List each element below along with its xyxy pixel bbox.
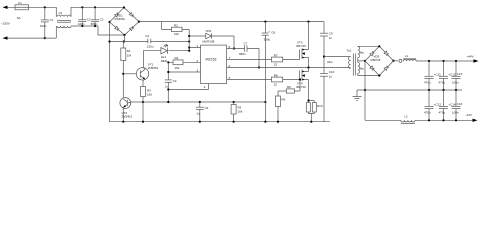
svg-text:1n: 1n bbox=[165, 85, 169, 89]
svg-text:1u: 1u bbox=[329, 75, 333, 79]
svg-text:100n: 100n bbox=[452, 110, 459, 114]
svg-text:R1: R1 bbox=[127, 49, 131, 53]
svg-text:R8: R8 bbox=[274, 73, 278, 77]
svg-text:~230V: ~230V bbox=[1, 22, 10, 26]
svg-text:+44V: +44V bbox=[467, 55, 474, 59]
svg-text:C7: C7 bbox=[244, 42, 248, 46]
svg-text:C4: C4 bbox=[145, 34, 149, 38]
svg-text:22: 22 bbox=[274, 63, 278, 67]
svg-text:R7: R7 bbox=[274, 53, 278, 57]
svg-text:R6: R6 bbox=[282, 98, 286, 102]
svg-text:MUR108: MUR108 bbox=[203, 39, 215, 43]
svg-text:C3: C3 bbox=[100, 18, 104, 22]
svg-text:L1: L1 bbox=[405, 54, 409, 58]
svg-text:R4: R4 bbox=[175, 56, 179, 60]
svg-text:R10: R10 bbox=[317, 104, 323, 108]
svg-text:IR2153: IR2153 bbox=[206, 57, 217, 61]
svg-text:C16: C16 bbox=[457, 102, 463, 106]
svg-text:1M: 1M bbox=[127, 54, 132, 58]
svg-text:10k: 10k bbox=[174, 32, 179, 36]
svg-text:+C11: +C11 bbox=[434, 73, 441, 77]
svg-text:10k: 10k bbox=[238, 110, 243, 114]
svg-text:+: + bbox=[268, 30, 270, 34]
svg-text:C8: C8 bbox=[271, 30, 275, 34]
svg-text:100n: 100n bbox=[452, 80, 459, 84]
svg-text:15k: 15k bbox=[175, 66, 180, 70]
svg-text:+C12: +C12 bbox=[434, 103, 442, 107]
svg-text:22: 22 bbox=[274, 83, 278, 87]
svg-text:C3: C3 bbox=[173, 79, 177, 83]
svg-text:470u: 470u bbox=[439, 80, 446, 84]
svg-text:2N5401: 2N5401 bbox=[122, 115, 133, 119]
svg-text:C2: C2 bbox=[87, 18, 91, 22]
svg-text:220u: 220u bbox=[147, 45, 154, 49]
svg-text:IRF740: IRF740 bbox=[296, 85, 306, 89]
svg-text:F1: F1 bbox=[18, 1, 22, 5]
svg-text:330u: 330u bbox=[264, 38, 271, 42]
svg-text:33w: 33w bbox=[327, 60, 333, 64]
svg-text:470u: 470u bbox=[439, 110, 446, 114]
svg-text:1u: 1u bbox=[329, 36, 333, 40]
svg-text:2N5551: 2N5551 bbox=[148, 66, 159, 70]
svg-text:+C14: +C14 bbox=[448, 103, 456, 107]
svg-text:L5: L5 bbox=[59, 11, 63, 15]
svg-text:C15: C15 bbox=[457, 72, 463, 76]
svg-text:-44V: -44V bbox=[466, 113, 472, 117]
svg-text:Tp1: Tp1 bbox=[347, 49, 353, 53]
svg-text:RED: RED bbox=[161, 59, 168, 63]
svg-text:IRF740: IRF740 bbox=[296, 44, 306, 48]
svg-text:100n: 100n bbox=[40, 24, 47, 28]
svg-text:KBPC8: KBPC8 bbox=[371, 58, 381, 62]
svg-text:1u: 1u bbox=[197, 112, 201, 116]
svg-text:470u: 470u bbox=[424, 80, 431, 84]
svg-text:150: 150 bbox=[147, 92, 152, 96]
svg-text:R2: R2 bbox=[174, 23, 178, 27]
svg-text:+C13: +C13 bbox=[448, 73, 456, 77]
svg-text:VD2: VD2 bbox=[206, 29, 212, 33]
svg-text:C1: C1 bbox=[50, 18, 54, 22]
svg-text:RS405L: RS405L bbox=[115, 17, 126, 21]
svg-text:680n: 680n bbox=[239, 52, 246, 56]
svg-text:470u: 470u bbox=[424, 110, 431, 114]
svg-text:L2: L2 bbox=[404, 114, 408, 118]
svg-text:R9: R9 bbox=[287, 85, 291, 89]
svg-text:5A: 5A bbox=[17, 16, 21, 20]
svg-text:C6: C6 bbox=[205, 106, 209, 110]
